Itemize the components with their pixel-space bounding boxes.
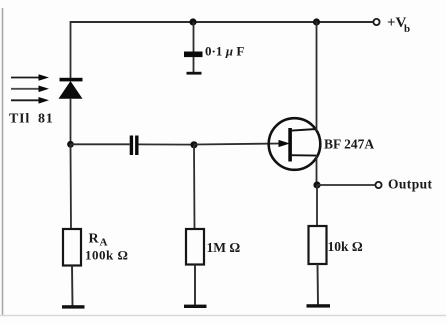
resistor R3 10k — [309, 226, 363, 264]
wire left branch upper — [70, 21, 72, 79]
ground 10k — [307, 304, 331, 307]
terminal +Vb — [373, 15, 410, 35]
capacitor C2 coupling — [130, 136, 139, 156]
wire capacitor bottom lead — [193, 57, 195, 73]
svg-text:TIl 81: TIl 81 — [9, 112, 54, 127]
wire above 10k resistor — [316, 185, 318, 227]
light arrow 1 — [11, 74, 49, 81]
light arrow 3 — [11, 97, 49, 104]
ground under capacitor — [187, 72, 202, 75]
svg-text:R: R — [89, 232, 100, 247]
node junction top-capacitor — [189, 18, 196, 25]
wire above RA resistor — [70, 144, 73, 230]
node gate junction — [190, 141, 197, 148]
resistor R1 RA 100k — [63, 229, 128, 266]
svg-text:b: b — [404, 23, 410, 35]
wire top rail — [70, 21, 373, 23]
wire source vertical — [316, 155, 318, 186]
ground 1M — [184, 305, 207, 308]
capacitor C1 0.1uF plate — [184, 52, 203, 58]
wire above 1M resistor — [193, 145, 196, 230]
scan page-edge artifacts (decorative) — [2, 8, 4, 315]
ground RA — [62, 305, 85, 308]
terminal Output — [375, 177, 432, 192]
wire left branch lower (diode to middle node) — [70, 98, 72, 145]
node middle-left junction — [67, 141, 74, 148]
node output junction — [313, 181, 320, 188]
transistor Q1 BF 247A JFET — [269, 118, 321, 170]
node junction top-drain — [313, 18, 320, 25]
svg-text:Output: Output — [388, 177, 433, 192]
wire gate lead — [194, 144, 281, 145]
wire middle horizontal left — [71, 143, 130, 145]
svg-text:1M Ω: 1M Ω — [207, 240, 241, 255]
svg-text:0·1 µ F: 0·1 µ F — [205, 44, 244, 59]
light arrow 2 — [11, 86, 49, 93]
resistor R2 1M — [186, 229, 240, 265]
wire output horizontal — [317, 184, 375, 186]
wire drain vertical — [316, 21, 318, 131]
photodiode D1 TIL81 — [59, 78, 83, 99]
wire below 10k — [317, 264, 320, 305]
svg-text:10k Ω: 10k Ω — [328, 239, 363, 254]
wire below 1M — [194, 265, 196, 306]
svg-text:100k Ω: 100k Ω — [85, 248, 128, 263]
wire below RA — [71, 266, 74, 307]
svg-text:BF 247A: BF 247A — [324, 137, 374, 152]
wire middle horizontal right — [139, 143, 195, 145]
wire capacitor top lead — [193, 22, 195, 52]
